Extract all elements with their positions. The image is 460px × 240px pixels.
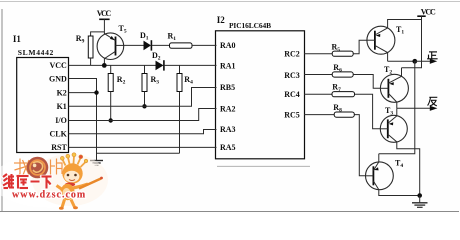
svg-text:I/O: I/O — [55, 116, 67, 125]
I2 pin RC2 — [284, 49, 300, 58]
svg-text:K2: K2 — [57, 88, 67, 97]
svg-text:D1: D1 — [140, 31, 149, 42]
power VCC (left) — [97, 9, 112, 34]
wire: VCC rail from I1.VCC to D2 anode — [69, 64, 156, 66]
label R2 — [117, 75, 126, 86]
svg-text:R1: R1 — [168, 32, 177, 43]
wire: D1 to R1 — [152, 44, 170, 46]
label FAN glyph — [428, 97, 438, 106]
label R3 — [151, 75, 160, 86]
node A: forward output junction — [412, 59, 417, 64]
I2 pin RC5 — [284, 110, 300, 119]
label SLM4442 — [18, 48, 54, 57]
wire: T5 base to D1 — [124, 44, 144, 46]
left arm — [57, 186, 62, 190]
outlined text ZHAO (find) — [14, 159, 29, 176]
label PIC16LC64B — [229, 21, 271, 30]
label R9 — [76, 34, 85, 45]
wire: I2.RC2 to R5 — [304, 53, 332, 55]
ground (left) — [90, 161, 103, 166]
mascot monkey — [57, 153, 103, 210]
label R8 — [333, 103, 342, 114]
head — [62, 163, 82, 183]
wire: I1.K2 to GND line — [69, 92, 97, 94]
svg-text:R5: R5 — [332, 42, 341, 53]
XIA — [42, 175, 52, 177]
label I1 — [13, 34, 22, 44]
I2 pin RC4 — [284, 90, 300, 99]
wire: I1.I/O to I2.RA2 — [69, 109, 217, 121]
resistor R9 — [88, 32, 104, 66]
logo chip circle — [27, 157, 49, 179]
I1 pin VCC — [49, 61, 67, 70]
scarf — [65, 183, 75, 187]
svg-text:R2: R2 — [117, 75, 126, 86]
svg-text:RC5: RC5 — [284, 110, 300, 119]
I1 pin GND — [49, 75, 67, 84]
svg-text:RA1: RA1 — [220, 61, 236, 70]
node: R3 to K1 line — [142, 104, 146, 108]
wire: R7 to T3 base — [355, 94, 381, 129]
wire: T1 collector to node A (forward) — [388, 60, 415, 62]
svg-text:RST: RST — [51, 143, 67, 152]
wire: R5 to T1 base — [353, 40, 367, 54]
diode D1 — [144, 40, 152, 50]
IC U-I2 PIC16LC64B box — [216, 31, 311, 167]
svg-text:T1: T1 — [396, 25, 404, 36]
svg-text:VCC: VCC — [97, 9, 112, 18]
node: T3/T4 collectors to ground — [417, 193, 422, 198]
wire: I1.K1 to I2.RB5 — [69, 88, 217, 107]
right arm with stick — [73, 184, 88, 188]
IC U-I1 SLM4442 box — [17, 58, 69, 153]
www.dzsc.com — [12, 190, 86, 201]
resistor R6 — [332, 72, 353, 77]
label R6 — [333, 63, 342, 74]
svg-text:SLM4442: SLM4442 — [18, 48, 54, 57]
I2 pin RB5 — [220, 83, 235, 92]
wire: I1.RST to I2.RA5 — [69, 146, 217, 148]
label T2 — [384, 65, 392, 76]
svg-text:CLK: CLK — [49, 130, 67, 139]
svg-text:R4: R4 — [184, 75, 193, 86]
svg-text:GND: GND — [49, 75, 67, 84]
wire: R6 to T2 base — [353, 75, 380, 89]
label I2 — [217, 15, 226, 25]
wire: R1 to I2.RA0 — [192, 44, 217, 46]
svg-text:PIC16LC64B: PIC16LC64B — [229, 21, 271, 30]
svg-text:RA0: RA0 — [220, 41, 236, 50]
wire: R8 to T4 base — [354, 115, 365, 176]
I1 pin CLK — [49, 130, 67, 139]
svg-text:RC3: RC3 — [284, 71, 300, 80]
red text WEI KU YI XIA — [3, 174, 52, 189]
svg-text:VCC: VCC — [421, 7, 436, 16]
svg-text:RC4: RC4 — [284, 90, 300, 99]
label T3 — [385, 106, 393, 117]
wire: D2 cathode to I2.RA1 — [165, 64, 217, 66]
svg-text:RA2: RA2 — [220, 104, 236, 113]
resistor R1 — [170, 43, 193, 48]
label T5 — [119, 24, 127, 35]
outlined text PIAN — [51, 159, 63, 175]
wire: ground rail to R4 bottom — [97, 152, 180, 154]
svg-text:R3: R3 — [151, 75, 160, 86]
label R4 — [184, 75, 193, 86]
transistor T1 (PNP high-side) — [367, 20, 422, 62]
legs — [62, 200, 65, 208]
label R7 — [332, 83, 341, 94]
crown spikes — [63, 156, 86, 167]
watermark dzsc.com logo — [0, 153, 108, 210]
WEI — [3, 174, 7, 177]
wire: I2.RC5 to R8 — [304, 114, 334, 116]
svg-text:I2: I2 — [217, 15, 226, 25]
svg-text:T2: T2 — [384, 65, 392, 76]
transistor T4 (PNP) — [366, 154, 420, 196]
I1 pin K2 — [57, 88, 67, 97]
I1 pin RST — [51, 143, 67, 152]
power VCC (right) — [402, 7, 437, 67]
label T1 — [396, 25, 404, 36]
label R1 — [168, 32, 177, 43]
wire: I1.CLK to I2.RA3 — [69, 130, 217, 134]
node: K2/GND junction — [94, 90, 98, 94]
svg-text:RC2: RC2 — [284, 49, 300, 58]
svg-text:R9: R9 — [76, 34, 85, 45]
svg-text:T4: T4 — [395, 159, 403, 170]
transistor T5 (PNP, card VCC switch) — [97, 33, 124, 66]
I2 pin RA2 — [220, 104, 236, 113]
label T4 — [395, 159, 403, 170]
svg-text:www.dzsc.com: www.dzsc.com — [12, 190, 86, 201]
node: junction T5 collector / R9 / rail — [102, 63, 107, 68]
I2 pin RA0 — [220, 41, 236, 50]
node: R2 to I/O line — [109, 118, 113, 122]
svg-text:D2: D2 — [152, 51, 161, 62]
svg-text:I1: I1 — [13, 34, 22, 44]
wire: I2.RC4 to R7 — [304, 93, 332, 95]
label D1 — [140, 31, 149, 42]
I1 pin K1 — [57, 102, 67, 111]
output arrow FAN (reverse) — [397, 106, 438, 111]
svg-text:VCC: VCC — [49, 61, 67, 70]
KU — [17, 175, 29, 177]
body — [61, 184, 75, 200]
svg-text:R6: R6 — [333, 63, 342, 74]
svg-text:K1: K1 — [57, 102, 67, 111]
output arrow ZHENG (forward) — [415, 59, 437, 64]
svg-text:R7: R7 — [332, 83, 341, 94]
label ZHENG glyph — [427, 52, 438, 59]
wire: I2.RC3 to R6 — [304, 74, 332, 76]
I2 pin RA5 — [220, 143, 236, 152]
svg-text:R8: R8 — [333, 103, 342, 114]
I2 pin RA3 — [220, 125, 236, 134]
I2 pin RC3 — [284, 71, 300, 80]
YI — [31, 181, 40, 183]
label R5 — [332, 42, 341, 53]
I1 pin I/O — [55, 116, 67, 125]
svg-text:RA5: RA5 — [220, 143, 236, 152]
resistor R5 — [332, 51, 353, 56]
resistor R2 (pull-up on I/O) — [108, 65, 113, 120]
resistor R8 — [334, 112, 354, 117]
I2 pin RA1 — [220, 61, 236, 70]
ground (right) — [412, 196, 428, 208]
svg-text:T3: T3 — [385, 106, 393, 117]
resistor R7 — [332, 92, 355, 97]
svg-text:RA3: RA3 — [220, 125, 236, 134]
transistor T2 (PNP) — [380, 68, 408, 109]
transistor T3 (PNP) — [380, 108, 419, 195]
diode D2 — [156, 60, 164, 70]
label D2 — [152, 51, 161, 62]
svg-text:T5: T5 — [119, 24, 127, 35]
wire: I1.GND down to ground — [69, 79, 97, 161]
svg-text:RB5: RB5 — [220, 83, 235, 92]
resistor R3 (pull-up on K1) — [142, 65, 147, 106]
wire: node A down to T4 emitter line — [379, 61, 415, 153]
resistor R4 — [177, 65, 182, 153]
